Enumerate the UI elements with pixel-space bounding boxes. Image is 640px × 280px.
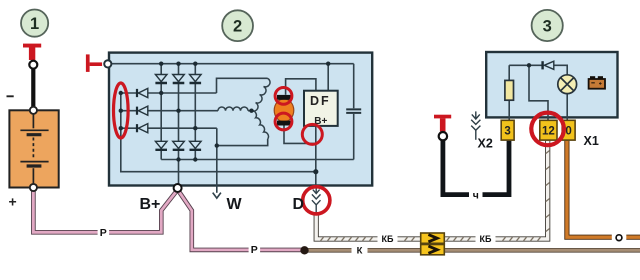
svg-text:КБ: КБ	[480, 234, 492, 244]
svg-text:2: 2	[233, 18, 242, 36]
svg-text:ч: ч	[473, 190, 479, 202]
svg-text:КБ: КБ	[382, 234, 394, 244]
svg-text:DF: DF	[310, 94, 331, 108]
svg-text:B+: B+	[140, 196, 161, 213]
svg-text:Р: Р	[100, 227, 107, 239]
svg-text:X2: X2	[478, 137, 493, 151]
svg-text:D: D	[293, 196, 305, 213]
svg-text:+: +	[9, 194, 17, 210]
svg-text:W: W	[227, 196, 243, 213]
svg-text:К: К	[357, 246, 363, 257]
svg-text:12: 12	[542, 126, 555, 138]
svg-text:3: 3	[543, 17, 552, 35]
svg-text:Р: Р	[251, 244, 258, 256]
svg-text:X1: X1	[584, 134, 599, 148]
svg-text:3: 3	[504, 126, 510, 138]
svg-text:0: 0	[565, 126, 571, 138]
svg-text:1: 1	[30, 15, 39, 33]
